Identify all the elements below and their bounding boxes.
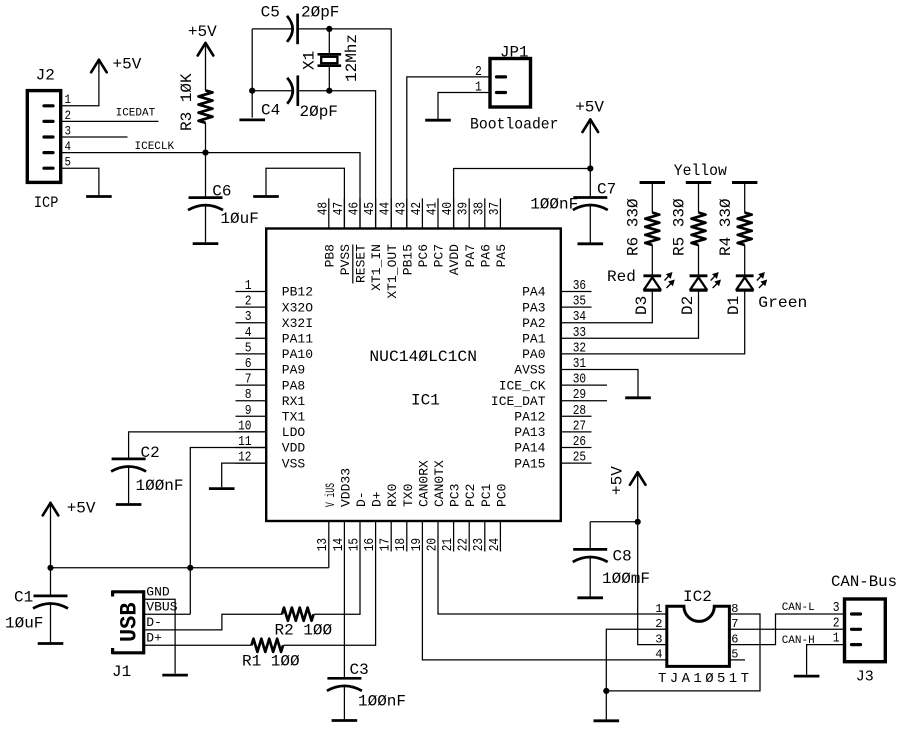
svg-text:VDD: VDD <box>282 441 306 456</box>
pin number 34 (IC1) <box>573 309 586 325</box>
label 100mF (C8) <box>602 570 650 588</box>
svg-text:1: 1 <box>655 602 662 616</box>
connector JP1 (Bootloader) <box>490 59 531 108</box>
pin number 6 (IC1) <box>245 356 252 372</box>
svg-text:R6 33Ø: R6 33Ø <box>625 198 643 256</box>
pin name PC6 <box>416 244 431 267</box>
svg-text:C3: C3 <box>350 661 369 679</box>
wire IC1 pin 25 stub <box>561 462 592 464</box>
svg-text:2ØpF: 2ØpF <box>300 103 338 121</box>
wire IC1 pin 30 stub <box>561 384 607 386</box>
svg-text:TX0: TX0 <box>401 484 416 507</box>
svg-text:TX1: TX1 <box>282 410 306 425</box>
svg-text:ICE_DAT: ICE_DAT <box>491 394 546 409</box>
ground (J3) <box>794 675 820 678</box>
wire XTAL left rail <box>251 29 253 118</box>
resistor R6 <box>645 213 659 245</box>
svg-text:J3: J3 <box>856 669 874 686</box>
svg-text:R2 1ØØ: R2 1ØØ <box>275 621 333 639</box>
wire IC1 pin 23 stub <box>484 521 486 552</box>
svg-text:CAN-Bus: CAN-Bus <box>831 573 897 591</box>
pin number 37 (IC1) <box>487 202 503 215</box>
svg-text:24: 24 <box>487 538 503 551</box>
svg-text:21: 21 <box>440 538 456 551</box>
wire +5V to C7 <box>589 169 591 198</box>
label +5V (AVDD) <box>575 99 604 117</box>
svg-text:PC3: PC3 <box>448 484 463 507</box>
svg-text:1: 1 <box>245 278 252 294</box>
pin name VDD33 <box>338 468 353 507</box>
wire IC1 pin 12 stub <box>236 462 267 464</box>
label +5V (R3) <box>188 23 217 41</box>
pin name CAN0TX <box>432 460 447 507</box>
pin number 36 (IC1) <box>573 278 586 294</box>
svg-text:+5V: +5V <box>113 56 142 74</box>
power +5V symbol (R3) <box>198 43 214 91</box>
pin number 30 (IC1) <box>573 372 586 388</box>
ground (C3) <box>332 719 358 722</box>
label C6 <box>212 183 231 201</box>
wire C4 left <box>252 90 292 92</box>
pin number 1 (JP1) <box>475 80 482 96</box>
wire IC1 pin 4 stub <box>236 337 267 339</box>
wire IC1 pin 39 stub <box>468 198 470 228</box>
svg-text:PB8: PB8 <box>322 244 337 267</box>
pin name VSS <box>282 456 306 471</box>
label JP1 <box>500 44 529 62</box>
wire C8 to ground <box>589 557 591 596</box>
pin number 47 (IC1) <box>331 202 347 215</box>
pin name RX1 <box>282 394 306 409</box>
ground (J2 pin5) <box>86 195 112 198</box>
pin name XT1_IN <box>369 244 384 291</box>
connector J1 (USB) <box>112 590 144 654</box>
label 100nF (C3) <box>358 693 406 711</box>
resistor R5 <box>692 213 706 245</box>
svg-text:C5: C5 <box>261 4 280 22</box>
label J2 <box>36 67 55 85</box>
capacitor C7 <box>573 198 608 211</box>
connector J2 (ICP header) <box>27 91 60 183</box>
pin number 2 (J3) <box>833 615 840 631</box>
junction rail/C1 <box>47 565 53 571</box>
wire IC1 pin 37 stub <box>499 198 501 228</box>
wire AVDD pin40 to +5V <box>454 169 591 229</box>
wire IC1 pin 35 stub <box>561 306 592 308</box>
svg-text:PC7: PC7 <box>432 244 447 267</box>
pin number 1 (IC1) <box>245 278 252 294</box>
pin number 46 (IC1) <box>347 202 363 215</box>
pin number 3 (J3) <box>833 600 840 616</box>
wire J2 pin5 to ground <box>61 168 99 195</box>
svg-text:Yellow: Yellow <box>674 162 727 180</box>
svg-text:RX0: RX0 <box>385 484 400 507</box>
net label CAN-L <box>782 602 815 614</box>
label ICP <box>34 194 59 212</box>
wire VSS pin12 to ground <box>222 463 267 487</box>
wire bar to R6 <box>651 183 653 213</box>
wire C1 to ground <box>50 604 52 643</box>
ground (C2) <box>116 503 142 506</box>
pin name PA6 <box>478 244 493 267</box>
label 10uF (C6) <box>220 210 258 228</box>
pin name PA4 <box>522 285 546 300</box>
svg-text:42: 42 <box>409 202 425 215</box>
pin name PA2 <box>522 316 545 331</box>
svg-text:2: 2 <box>245 294 252 310</box>
pin name TX0 <box>401 484 416 507</box>
wire R6 to D3 <box>651 245 653 276</box>
pin number 4 (IC2) <box>655 648 662 662</box>
label D2 <box>679 296 697 315</box>
capacitor C6 <box>188 198 223 211</box>
svg-text:D3: D3 <box>633 296 651 315</box>
pin number 31 (IC1) <box>573 356 586 372</box>
wire IC1 pin 28 stub <box>561 415 592 417</box>
svg-text:Green: Green <box>758 294 807 312</box>
pin name PC2 <box>463 484 478 507</box>
pin number 3 (IC1) <box>245 309 252 325</box>
pin number 45 (IC1) <box>362 202 378 215</box>
svg-text:46: 46 <box>347 202 363 215</box>
svg-text:PC0: PC0 <box>494 484 509 507</box>
wire D3 to IC1 <box>561 290 653 322</box>
svg-text:D+: D+ <box>146 631 162 646</box>
wire J2 pin3 <box>61 136 128 138</box>
supply bar (LED branch D2) <box>686 181 711 184</box>
capacitor C5 <box>287 14 298 45</box>
pin number 1 (J2) <box>65 92 72 107</box>
svg-text:PA1: PA1 <box>522 332 546 347</box>
wire C6 to ground <box>205 205 207 242</box>
wire IC1 pin 1 stub <box>236 291 267 293</box>
pin name PA9 <box>282 363 305 378</box>
svg-text:44: 44 <box>378 202 394 215</box>
pin number 11 (IC1) <box>238 434 251 450</box>
pin number 43 (IC1) <box>393 202 409 215</box>
power +5V symbol (AVDD) <box>583 120 599 169</box>
wire net ICEDAT <box>61 120 159 122</box>
wire IC1 pin 38 stub <box>484 198 486 228</box>
svg-text:C7: C7 <box>597 181 616 199</box>
pin name PA15 <box>514 456 545 471</box>
pin number 2 (IC1) <box>245 294 252 310</box>
pin name PA11 <box>282 332 313 347</box>
svg-text:J2: J2 <box>36 67 55 85</box>
svg-text:VSS: VSS <box>282 456 306 471</box>
wire IC1 pin 5 stub <box>236 353 267 355</box>
ground (IC2) <box>594 719 620 722</box>
wire D1 to IC1 <box>561 290 745 354</box>
svg-text:D2: D2 <box>679 296 697 315</box>
wire C3 to ground <box>343 686 345 719</box>
svg-text:PA0: PA0 <box>522 347 545 362</box>
wire R2 to D- pin15 <box>314 521 360 614</box>
junction C4 left <box>249 88 255 94</box>
svg-text:47: 47 <box>331 202 347 215</box>
pin number 26 (IC1) <box>573 434 586 450</box>
svg-text:PB12: PB12 <box>282 285 313 300</box>
label +5V (J2) <box>113 56 142 74</box>
pin name PA0 <box>522 347 545 362</box>
svg-text:D1: D1 <box>725 296 743 315</box>
svg-text:PC1: PC1 <box>479 483 494 507</box>
pin name PA3 <box>522 300 545 315</box>
svg-text:CAN-L: CAN-L <box>782 602 815 614</box>
pin name VDD <box>282 441 306 456</box>
label C7 <box>597 181 616 199</box>
svg-text:Red: Red <box>607 268 636 286</box>
svg-text:29: 29 <box>573 387 586 403</box>
ground (JP1) <box>425 119 451 122</box>
pin number 38 (IC1) <box>471 202 487 215</box>
svg-text:ICE_CK: ICE_CK <box>499 378 546 393</box>
svg-text:XT1_OUT: XT1_OUT <box>385 244 400 299</box>
svg-text:1ØØnF: 1ØØnF <box>358 693 406 711</box>
ground (XTAL rail) <box>239 119 265 122</box>
wire IC2 ground <box>605 691 607 720</box>
svg-text:1ØuF: 1ØuF <box>220 210 258 228</box>
wire IC2 pin8 STB to ground <box>606 614 760 691</box>
wire IC1 pin 42 stub <box>421 198 423 228</box>
wire C8 to +5V <box>590 521 638 523</box>
wire net XT1_OUT (C5 to pin44) <box>298 29 392 229</box>
pin number 17 (IC1) <box>378 538 394 551</box>
wire IC1 pin 47 stub <box>343 198 345 228</box>
svg-text:+5V: +5V <box>609 466 627 495</box>
wire net XT1_IN (C4 to pin45) <box>298 91 376 229</box>
wire IC1 pin 26 stub <box>561 447 592 449</box>
pin number 42 (IC1) <box>409 202 425 215</box>
overline RESET <box>352 245 354 284</box>
svg-text:4: 4 <box>245 325 252 341</box>
wire J1 D- to R2 <box>144 614 282 630</box>
svg-text:2ØpF: 2ØpF <box>301 4 339 22</box>
pin number 24 (IC1) <box>487 538 503 551</box>
pin number 10 (IC1) <box>238 418 251 434</box>
svg-text:VBUS: VBUS <box>146 599 177 614</box>
label 10uF (C1) <box>5 615 43 633</box>
label C5 <box>261 4 280 22</box>
pin name PA1 <box>522 332 546 347</box>
svg-text:C1: C1 <box>14 588 33 606</box>
pin number 29 (IC1) <box>573 387 586 403</box>
svg-text:3: 3 <box>833 600 840 616</box>
svg-text:5: 5 <box>65 155 72 170</box>
label IC2 <box>683 588 712 606</box>
pin name ICE_DAT <box>491 394 546 409</box>
svg-text:PA10: PA10 <box>282 347 313 362</box>
pin number 2 (JP1) <box>475 64 482 80</box>
supply bar (LED branch D1) <box>732 181 757 184</box>
pin number 23 (IC1) <box>471 538 487 551</box>
label 12Mhz <box>343 34 361 82</box>
wire IC1 pin 46 stub <box>359 198 361 228</box>
svg-text:CAN0TX: CAN0TX <box>432 460 447 507</box>
svg-text:2: 2 <box>833 615 840 631</box>
pin number 8 (IC1) <box>245 387 252 403</box>
pin name PC3 <box>448 484 463 507</box>
svg-text:4: 4 <box>65 139 72 154</box>
label TJA1051T <box>658 671 749 687</box>
svg-text:D+: D+ <box>370 491 385 507</box>
LED D1 <box>736 272 767 290</box>
wire net CAN0RX (pin19 to IC2 pin4) <box>422 521 666 660</box>
wire LDO pin10 to C2 <box>129 432 267 459</box>
junction X1 bottom <box>326 88 332 94</box>
pin number 35 (IC1) <box>573 294 586 310</box>
svg-text:PC6: PC6 <box>416 244 431 267</box>
svg-text:D-: D- <box>354 491 369 507</box>
wire IC1 pin 24 stub <box>499 521 501 552</box>
svg-text:PC2: PC2 <box>463 484 478 507</box>
svg-text:R4 33Ø: R4 33Ø <box>717 198 735 256</box>
pin number 7 (IC1) <box>245 372 252 388</box>
label R1 100 <box>242 652 300 670</box>
pin number 1 (IC2) <box>655 602 662 616</box>
pin name PA8 <box>282 378 305 393</box>
label D1 <box>725 296 743 315</box>
ground (C1) <box>38 642 64 645</box>
wire net CAN-H (IC2 pin7 to J3 pin2) <box>729 628 844 630</box>
wire IC1 pin 40 stub <box>453 198 455 228</box>
svg-text:PA13: PA13 <box>514 425 545 440</box>
label IC1 <box>411 391 440 409</box>
pin name V iUS <box>323 483 338 507</box>
pin number 41 (IC1) <box>425 202 441 215</box>
wire C7 to ground <box>589 205 591 242</box>
pin number 2 (J2) <box>65 108 72 123</box>
wire net CAN-L (IC2 pin6 to J3 pin3) <box>729 614 844 645</box>
resistor R1 <box>252 639 284 652</box>
wire IC1 pin 44 stub <box>390 198 392 228</box>
pin name RESET <box>354 244 369 283</box>
svg-text:PA6: PA6 <box>478 244 493 267</box>
svg-text:AVDD: AVDD <box>447 244 462 275</box>
label C4 <box>261 102 280 120</box>
svg-text:PA2: PA2 <box>522 316 545 331</box>
wire IC1 pin 8 stub <box>236 400 267 402</box>
junction rail/VDD <box>187 565 193 571</box>
svg-text:PA7: PA7 <box>463 244 478 267</box>
label Red <box>607 268 636 286</box>
label C2 <box>141 444 160 462</box>
ground (PVSS) <box>253 195 279 198</box>
pin number 40 (IC1) <box>440 202 456 215</box>
wire VDD pin11 to +5V rail and VBUS <box>190 448 266 615</box>
wire rail to VBUS pin13 <box>328 521 330 568</box>
capacitor C3 <box>327 678 362 691</box>
svg-text:37: 37 <box>487 202 503 215</box>
svg-text:+5V: +5V <box>188 23 217 41</box>
connector J3 (CAN-Bus) <box>845 599 886 662</box>
label C1 <box>14 588 33 606</box>
svg-text:4: 4 <box>655 648 662 662</box>
svg-text:3: 3 <box>245 309 252 325</box>
capacitor C1 <box>33 596 68 609</box>
svg-text:36: 36 <box>573 278 586 294</box>
label USB <box>117 602 143 642</box>
svg-text:VDD33: VDD33 <box>338 468 353 507</box>
wire R3 to ICECLK node <box>205 123 207 153</box>
pin name PA10 <box>282 347 313 362</box>
power +5V symbol (J2) <box>91 60 107 73</box>
wire IC1 pin 45 stub <box>375 198 377 228</box>
svg-text:28: 28 <box>573 403 586 419</box>
crystal X1 <box>318 29 342 91</box>
pin number 15 (IC1) <box>346 538 362 551</box>
svg-text:ICECLK: ICECLK <box>135 141 175 153</box>
label 100nF (C7) <box>530 195 578 213</box>
svg-text:PA5: PA5 <box>494 244 509 267</box>
pin name RX0 <box>385 484 400 507</box>
label J3 <box>856 669 874 686</box>
pin name LDO <box>282 425 306 440</box>
pin name PA7 <box>463 244 478 267</box>
pin number 3 (IC2) <box>655 632 662 646</box>
pin number 12 (IC1) <box>238 450 251 466</box>
pin number 7 (IC2) <box>731 617 738 631</box>
svg-text:C2: C2 <box>141 444 160 462</box>
wire IC1 pin 43 stub <box>406 198 408 228</box>
capacitor C4 <box>287 75 298 106</box>
svg-text:RX1: RX1 <box>282 394 306 409</box>
svg-text:22: 22 <box>456 538 472 551</box>
svg-text:9: 9 <box>245 403 252 419</box>
label NUC140LC1CN <box>369 348 477 366</box>
svg-text:C4: C4 <box>261 102 280 120</box>
wire net ICECLK to RESET pin46 <box>61 153 360 229</box>
label Green <box>758 294 807 312</box>
label C3 <box>350 661 369 679</box>
capacitor C2 <box>111 459 146 472</box>
svg-text:X1: X1 <box>301 51 319 70</box>
pin name PA13 <box>514 425 545 440</box>
wire bar to R4 <box>744 183 746 213</box>
label Yellow <box>674 162 727 180</box>
svg-text:RESET: RESET <box>354 244 369 283</box>
svg-text:LDO: LDO <box>282 425 306 440</box>
wire bar to R5 <box>698 183 700 213</box>
wire IC1 pin 29 stub <box>561 400 607 402</box>
pin number 4 (IC1) <box>245 325 252 341</box>
supply bar (LED branch D3) <box>640 181 665 184</box>
svg-text:1ØØnF: 1ØØnF <box>530 195 578 213</box>
pin number 3 (J2) <box>65 123 72 138</box>
svg-text:PA3: PA3 <box>522 300 545 315</box>
pin number 9 (IC1) <box>245 403 252 419</box>
wire IC1 pin 17 stub <box>390 521 392 552</box>
svg-text:GND: GND <box>146 584 170 599</box>
wire IC1 pin 9 stub <box>236 415 267 417</box>
wire AVSS pin31 to ground <box>561 370 638 397</box>
ground (J1) <box>162 674 188 677</box>
svg-text:R1 1ØØ: R1 1ØØ <box>242 652 300 670</box>
svg-text:R5 33Ø: R5 33Ø <box>671 198 689 256</box>
pin name D+ <box>370 491 385 507</box>
net label ICEDAT <box>116 107 156 119</box>
pin name PA12 <box>514 410 545 425</box>
svg-text:48: 48 <box>315 202 331 215</box>
pin name AVSS <box>514 363 545 378</box>
label R4 330 <box>717 198 735 256</box>
svg-text:PA11: PA11 <box>282 332 313 347</box>
wire J1 VBUS <box>144 613 190 615</box>
LED D2 <box>690 272 721 290</box>
label +5V (rail) <box>67 500 96 518</box>
capacitor C8 <box>573 549 608 562</box>
label 20pF (C5) <box>301 4 339 22</box>
